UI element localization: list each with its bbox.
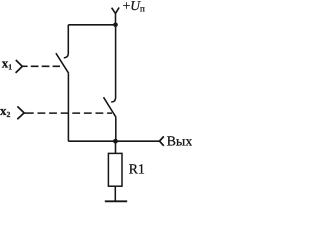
svg-text:+Uп: +Uп bbox=[123, 0, 145, 13]
svg-text:x2: x2 bbox=[0, 103, 11, 119]
svg-text:R1: R1 bbox=[129, 162, 145, 177]
svg-text:Вых: Вых bbox=[167, 135, 192, 150]
svg-text:x1: x1 bbox=[2, 56, 13, 72]
